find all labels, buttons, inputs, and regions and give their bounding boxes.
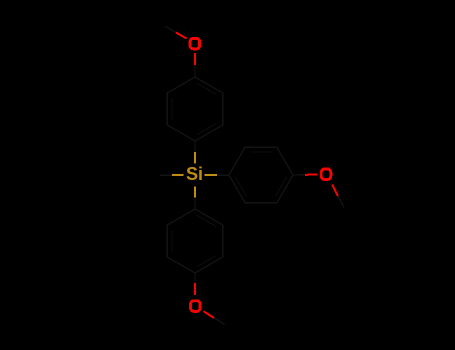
- bond Si-C1(R2) lower (silicon half): [194, 187, 196, 198]
- double bond inner line, ring R2 (bottom) edge 5: [197, 215, 216, 226]
- bond C4(R1)-Si upper (carbon half): [194, 141, 196, 152]
- bond C4(R2)-O2 (carbon half): [194, 273, 196, 283]
- benzene ring R1 (top): hexagon outline: [167, 77, 222, 141]
- bond C4(R2)-O2 (oxygen half): [194, 283, 196, 295]
- double bond inner line, ring R3 (right) edge 1: [250, 151, 272, 153]
- double bond inner line, ring R1 (top) edge 1: [171, 98, 173, 120]
- methyl bond O3-CH3 (oxygen half): [332, 185, 338, 197]
- bond Si-C1(R3) right (silicon half): [205, 174, 218, 176]
- bond C4(R1)-Si upper (silicon half): [194, 152, 196, 164]
- bond Si-C1(R2) lower (carbon half): [194, 198, 196, 210]
- double bond inner line, ring R3 (right) edge 3: [276, 177, 287, 196]
- methyl bond O2-CH3 (oxygen half): [204, 311, 215, 318]
- double bond inner line, ring R2 (bottom) edge 1: [171, 230, 173, 252]
- atom label O2 (bottom methoxy oxygen): [191, 301, 201, 312]
- double bond inner line, ring R1 (top) edge 3: [197, 124, 216, 135]
- double bond inner line, ring R1 (top) edge 5: [197, 83, 216, 94]
- bond Si-CH3 left (silicon half): [172, 174, 184, 176]
- bond C4(R3)-O3 (heteroatom half): [305, 174, 317, 176]
- benzene ring R2 (bottom): hexagon outline: [167, 209, 222, 273]
- atom label O1 (top methoxy oxygen): [190, 38, 200, 49]
- atom label O3 (right methoxy oxygen): [321, 169, 331, 180]
- methyl bond O1-CH3 (carbon half): [165, 26, 176, 32]
- double bond inner line, ring R2 (bottom) edge 3: [197, 256, 216, 267]
- double bond inner line, ring R3 (right) edge 5: [235, 177, 246, 196]
- bond Si-CH3 left (carbon half): [160, 174, 172, 176]
- methyl bond O2-CH3 (carbon half): [214, 318, 225, 324]
- methyl bond O1-CH3 (oxygen half): [176, 32, 187, 38]
- bond C4(R3)-O3 (carbon half): [293, 174, 305, 176]
- benzene ring R3 (right): hexagon outline: [229, 147, 293, 202]
- methyl bond O3-CH3 (carbon half): [338, 196, 344, 208]
- svg-text:Si: Si: [186, 164, 203, 184]
- bond C1-O1 (carbon half): [194, 65, 196, 77]
- bond C1-O1 (oxygen half): [194, 53, 196, 65]
- bond Si-C1(R3) right (carbon half): [217, 174, 229, 176]
